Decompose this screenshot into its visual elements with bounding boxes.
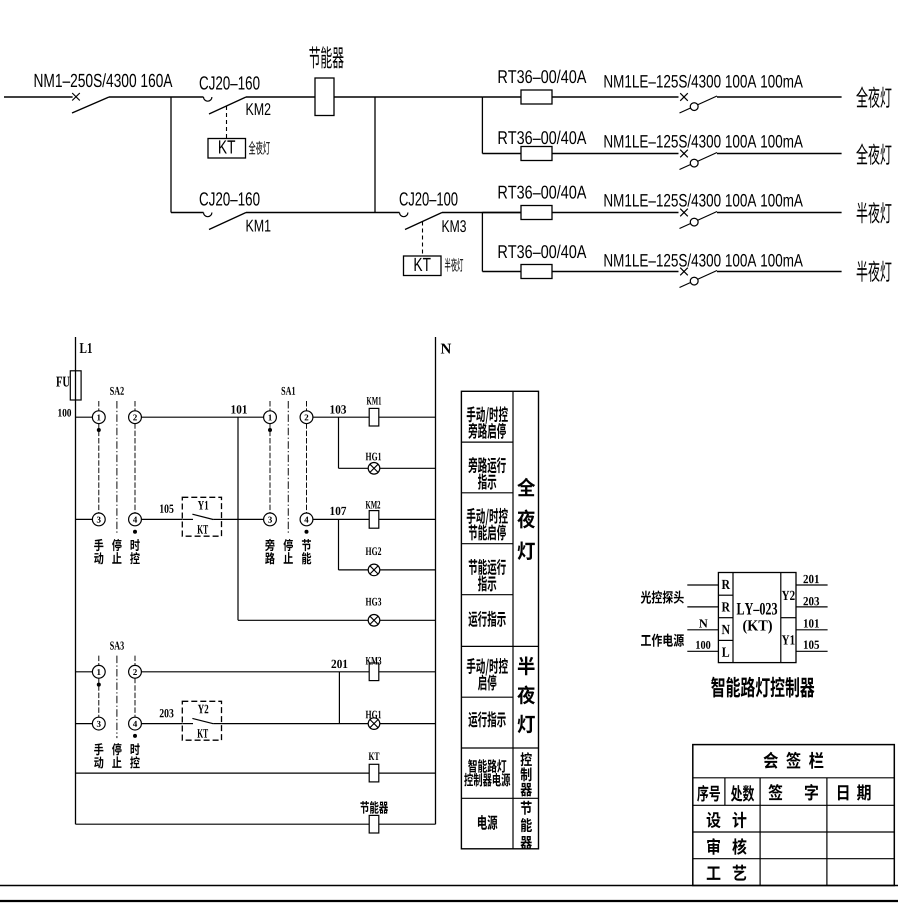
wire breaker to load: [717, 212, 842, 214]
table row 7 label 运行指示: [468, 712, 477, 728]
header 日期: [838, 785, 848, 800]
wire fuse to breaker: [552, 153, 679, 155]
header 签字: [768, 784, 782, 800]
SA1 terminal 1: [264, 411, 277, 424]
signature table frame: [693, 745, 895, 886]
wire Y2 box to HG1b: [222, 723, 369, 725]
SA1 position labels: [265, 539, 274, 551]
label NM1-250S/4300 160A: [35, 74, 43, 87]
time relay KT box (half-night): [404, 256, 442, 276]
wire KM1 coil to N: [379, 416, 436, 418]
SA3 terminal 2: [129, 665, 142, 678]
wire photo sensor R2: [687, 606, 718, 608]
wire Y1 box to SA1-3: [222, 518, 264, 520]
SA2 terminal 2: [129, 411, 142, 424]
time relay contact Y1/KT (dashed box): [182, 497, 221, 536]
label 节能器 (coil): [360, 801, 369, 814]
wire output 203: [796, 606, 828, 608]
SA1 position dot (contact 1): [268, 428, 272, 432]
pin R (upper): [722, 580, 730, 589]
pin Y2: [782, 591, 790, 600]
function table frame: [461, 391, 538, 849]
wire branch to fuse: [482, 212, 521, 214]
controller U1 LY-023 (KT) body: [718, 573, 796, 663]
junction 101 drop wire: [237, 417, 239, 620]
breaker NM1LE-125S/4300 100A 100mA: [680, 150, 718, 170]
wire KM1 row left: [171, 212, 204, 214]
pin R (lower): [722, 602, 730, 611]
label CJ20-160 (KM1): [200, 192, 208, 205]
SA1 terminal 2: [300, 411, 313, 424]
label L1: [80, 343, 87, 353]
label KT (coil): [369, 752, 375, 760]
table row 9 label 电源: [478, 815, 487, 830]
wire SA3-4 to Y2 box: [141, 723, 182, 725]
label KM2 (coil): [366, 501, 371, 509]
time relay KT box (full-night): [208, 139, 246, 159]
SA2 position dot (contact 1): [97, 428, 101, 432]
label N (bus): [441, 344, 451, 354]
node 105: [160, 505, 164, 513]
label RT36-00/40A: [499, 131, 508, 144]
SA1 terminal 4: [300, 513, 313, 526]
SA3 position dot (contact 4): [133, 734, 137, 738]
label NM1LE-125S/4300 100A 100mA: [605, 194, 613, 206]
wire breaker to load: [717, 153, 842, 155]
frame border bottom inner: [0, 885, 898, 887]
indicator lamp HG1 (half-night): [368, 718, 380, 730]
label 工作电源: [641, 635, 651, 646]
label LY-023: [737, 603, 744, 614]
wire HG3 row: [238, 619, 368, 621]
energy saver box 节能器: [315, 78, 334, 116]
SA1 terminal 3: [264, 513, 277, 526]
wire energy saver coil row: [76, 823, 370, 825]
node 103: [330, 405, 334, 413]
branch junction rows 3-4: [481, 213, 483, 272]
wire output 101: [796, 629, 828, 631]
SA2 terminal 3: [92, 513, 105, 526]
contactor main contact KM1 (CJ20-160): [204, 213, 247, 230]
SA3 position dot (contact 1): [97, 683, 101, 687]
label KM2: [247, 103, 254, 115]
wire branch to fuse: [482, 96, 521, 98]
label NM1LE-125S/4300 100A 100mA: [605, 254, 613, 266]
bus N: [435, 337, 437, 824]
label KM3 (coil): [366, 657, 371, 665]
table group label 节能器: [521, 801, 532, 815]
wire SA3-2 to KM3 coil: [141, 671, 369, 673]
node 203: [160, 709, 164, 717]
label KM1 (coil): [367, 397, 372, 405]
wire L1 to SA3-3: [76, 723, 93, 725]
pin Y1: [782, 635, 790, 644]
pin L: [722, 648, 729, 657]
wire supply L (100): [687, 650, 718, 652]
pin N: [722, 625, 730, 634]
SA2 position labels: [94, 539, 103, 551]
load label 半夜灯: [857, 261, 868, 282]
wire SA2-4 to Y1 box: [141, 518, 182, 520]
branch junction rows 1-2: [481, 97, 483, 154]
selector switch SA2: [99, 401, 135, 534]
table group label 控制器: [521, 752, 532, 766]
SA3 position labels: [94, 743, 103, 755]
table row 3 label 手动/时控节能启停: [467, 508, 476, 524]
wire fuse to breaker: [552, 271, 679, 273]
wire energy saver to junction: [334, 96, 482, 98]
wire photo sensor R1: [687, 584, 718, 586]
junction 107 drop wire: [338, 519, 340, 570]
breaker NM1LE-125S/4300 100A 100mA: [680, 209, 718, 229]
label 半夜灯 (beside KT2): [445, 258, 451, 272]
table row 1 label 手动/时控旁路启停: [467, 406, 476, 422]
label 105 (wire): [804, 641, 808, 649]
selector switch SA1: [270, 401, 307, 534]
time relay contact Y2/KT (dashed box): [182, 701, 221, 740]
label SA3: [110, 642, 114, 650]
junction 201 drop wire: [338, 672, 340, 724]
breaker NM1LE-125S/4300 100A 100mA: [680, 268, 718, 288]
contactor coil KM1: [369, 408, 379, 426]
time relay coil KT: [369, 764, 379, 782]
label 201 (wire): [803, 575, 808, 583]
table group label 全夜灯: [517, 478, 535, 497]
label KT (Y1 box): [197, 525, 203, 534]
wire HG2 row: [339, 569, 369, 571]
row 设计: [707, 812, 721, 828]
SA1 position dot (contact 4): [305, 530, 309, 534]
row 工艺: [707, 866, 721, 879]
wire supply N: [687, 629, 718, 631]
wire breaker to load: [717, 271, 842, 273]
wire HG1 row: [339, 467, 369, 469]
label SA2: [110, 387, 114, 395]
load label 全夜灯: [856, 86, 867, 107]
SA3 terminal 4: [129, 717, 142, 730]
wire branch to fuse: [482, 271, 521, 273]
contactor main contact KM2 (CJ20-160): [204, 97, 247, 114]
fuse RT36-00/40A: [521, 265, 552, 279]
label NM1LE-125S/4300 100A 100mA: [605, 135, 613, 147]
contactor coil KM2: [369, 511, 379, 529]
wire SA1-4 to KM2 coil: [313, 518, 369, 520]
label (KT): [743, 620, 747, 634]
frame border bottom outer: [0, 900, 898, 902]
label 101 (wire): [804, 619, 808, 627]
label 全夜灯 (beside KT): [249, 141, 256, 155]
bus L1: [75, 337, 77, 824]
SA3 terminal 1: [92, 665, 105, 678]
wire branch to fuse: [482, 153, 521, 155]
circuit breaker QF NM1-250S/4300 160A: [72, 93, 109, 113]
load label 全夜灯: [856, 143, 867, 164]
indicator lamp HG2: [368, 564, 380, 576]
node 100: [58, 409, 61, 417]
table row 2 label 旁路运行指示: [468, 457, 477, 473]
header 处数: [731, 785, 742, 802]
wire main bus to KM2: [109, 96, 204, 98]
wire HG1b to N: [380, 723, 436, 725]
wire fuse to breaker: [552, 96, 679, 98]
dashed link KM2 to KT: [226, 106, 228, 139]
node junction at x375: [374, 97, 376, 213]
wire SA2-2 to SA1-1: [141, 416, 263, 418]
table row 5 label 运行指示: [468, 611, 477, 627]
contactor main contact KM3 (CJ20-100): [400, 213, 443, 230]
SA2 terminal 4: [129, 513, 142, 526]
wire fuse to breaker: [552, 212, 679, 214]
SA2 terminal 1: [92, 411, 105, 424]
fuse FU: [70, 371, 81, 400]
node junction at x171: [170, 97, 172, 213]
table row 4 label 节能运行指示: [469, 559, 478, 575]
label 节能器 (top): [309, 46, 320, 68]
contactor coil KM3: [369, 663, 379, 681]
energy saver coil 节能器: [369, 815, 379, 833]
label N (wire): [699, 619, 708, 627]
label HG2: [366, 547, 372, 555]
wire output 105: [796, 650, 828, 652]
fuse RT36-00/40A: [521, 147, 552, 161]
row 审核: [707, 838, 720, 855]
caption 智能路灯控制器: [711, 677, 724, 698]
table row 6 label 手动/时控启停: [467, 658, 476, 674]
wire L1 to SA2-3: [76, 518, 93, 520]
breaker NM1LE-125S/4300 100A 100mA: [680, 93, 718, 113]
label Y1: [198, 501, 204, 510]
label KM1: [247, 220, 254, 232]
indicator lamp HG3: [368, 615, 380, 627]
wire breaker to load: [717, 96, 842, 98]
wire L1 to SA3-1: [76, 671, 93, 673]
selector switch SA3: [99, 656, 135, 739]
wire KM3 coil to N: [379, 671, 436, 673]
label Y2: [198, 705, 204, 714]
header 序号: [697, 785, 708, 802]
label RT36-00/40A: [499, 70, 508, 83]
node 201: [331, 660, 336, 668]
fuse RT36-00/40A: [521, 206, 552, 220]
label CJ20-100 (KM3): [400, 192, 408, 205]
load label 半夜灯: [857, 202, 868, 223]
fuse RT36-00/40A: [521, 90, 552, 104]
wire KM3 to branch junction: [442, 212, 521, 214]
label 100 (wire): [696, 641, 700, 649]
dashed link KM3 to KT2: [422, 222, 424, 257]
junction 103 drop wire: [338, 417, 340, 468]
title 会签栏: [764, 752, 779, 769]
table group label 半夜灯: [518, 657, 535, 676]
wire incoming supply: [4, 96, 73, 98]
SA2 position dot (contact 4): [133, 530, 137, 534]
node 107: [330, 507, 334, 515]
label SA1: [282, 387, 286, 395]
label HG1: [366, 453, 372, 461]
label KT (Y2 box): [197, 729, 203, 738]
label HG1 (half-night): [366, 711, 372, 719]
wire KM2 to energy saver: [246, 96, 315, 98]
node 101: [231, 405, 235, 413]
wire SA1-2 to KM1 coil: [313, 416, 369, 418]
wire KM2 coil to N: [379, 518, 436, 520]
wire L1 to SA2-1: [76, 416, 93, 418]
label NM1LE-125S/4300 100A 100mA: [605, 75, 613, 87]
indicator lamp HG1: [368, 463, 380, 475]
label RT36-00/40A: [499, 245, 508, 258]
wire KT coil row: [76, 772, 370, 774]
label KM3: [442, 220, 449, 232]
wire output 201: [796, 584, 828, 586]
SA3 terminal 3: [92, 717, 105, 730]
label CJ20-160 (KM2): [200, 76, 208, 89]
label 203 (wire): [803, 597, 808, 605]
label 光控探头: [641, 591, 651, 604]
label RT36-00/40A: [499, 186, 508, 199]
label HG3: [366, 598, 372, 606]
table row 8 label 智能路灯控制器电源: [468, 759, 477, 773]
wire KM1 to KM3: [246, 212, 400, 214]
label FU: [56, 377, 62, 387]
